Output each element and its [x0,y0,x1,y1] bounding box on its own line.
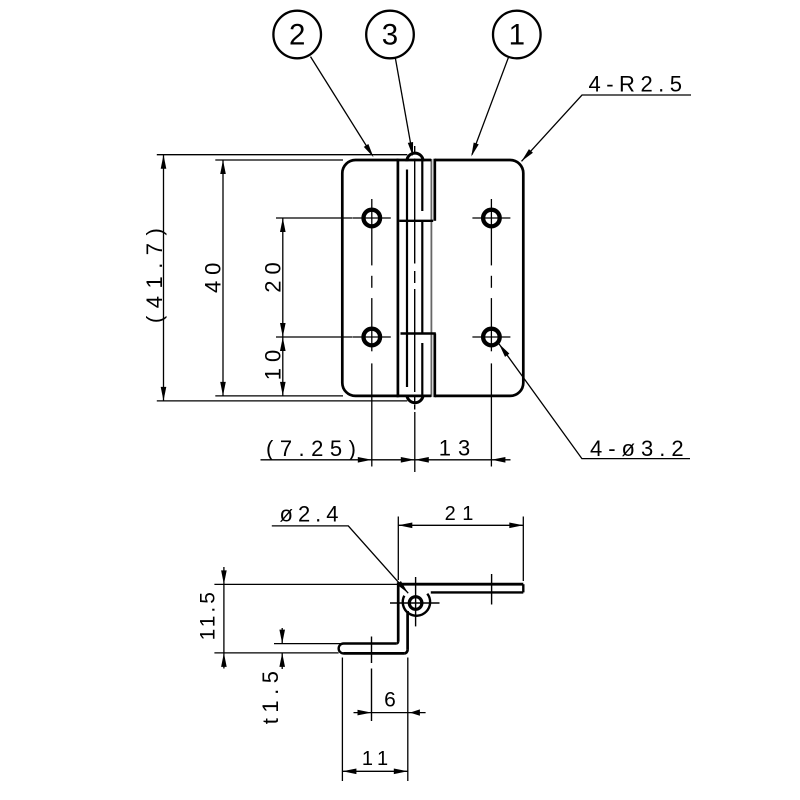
svg-text:(7.25): (7.25) [266,436,362,461]
svg-text:40: 40 [201,257,226,293]
svg-text:10: 10 [261,344,286,380]
svg-text:20: 20 [261,256,286,292]
svg-text:4-R2.5: 4-R2.5 [589,72,688,97]
svg-text:13: 13 [439,435,477,460]
svg-text:ø2.4: ø2.4 [280,502,344,527]
svg-text:21: 21 [445,503,480,525]
svg-text:11.5: 11.5 [197,589,220,640]
svg-text:t1.5: t1.5 [258,665,283,724]
svg-text:(41.7): (41.7) [142,221,167,323]
svg-text:4-ø3.2: 4-ø3.2 [590,436,690,461]
svg-text:6: 6 [384,689,396,712]
svg-text:11: 11 [362,748,394,770]
svg-text:1: 1 [509,19,525,52]
svg-text:3: 3 [382,19,398,52]
svg-text:2: 2 [289,19,305,52]
